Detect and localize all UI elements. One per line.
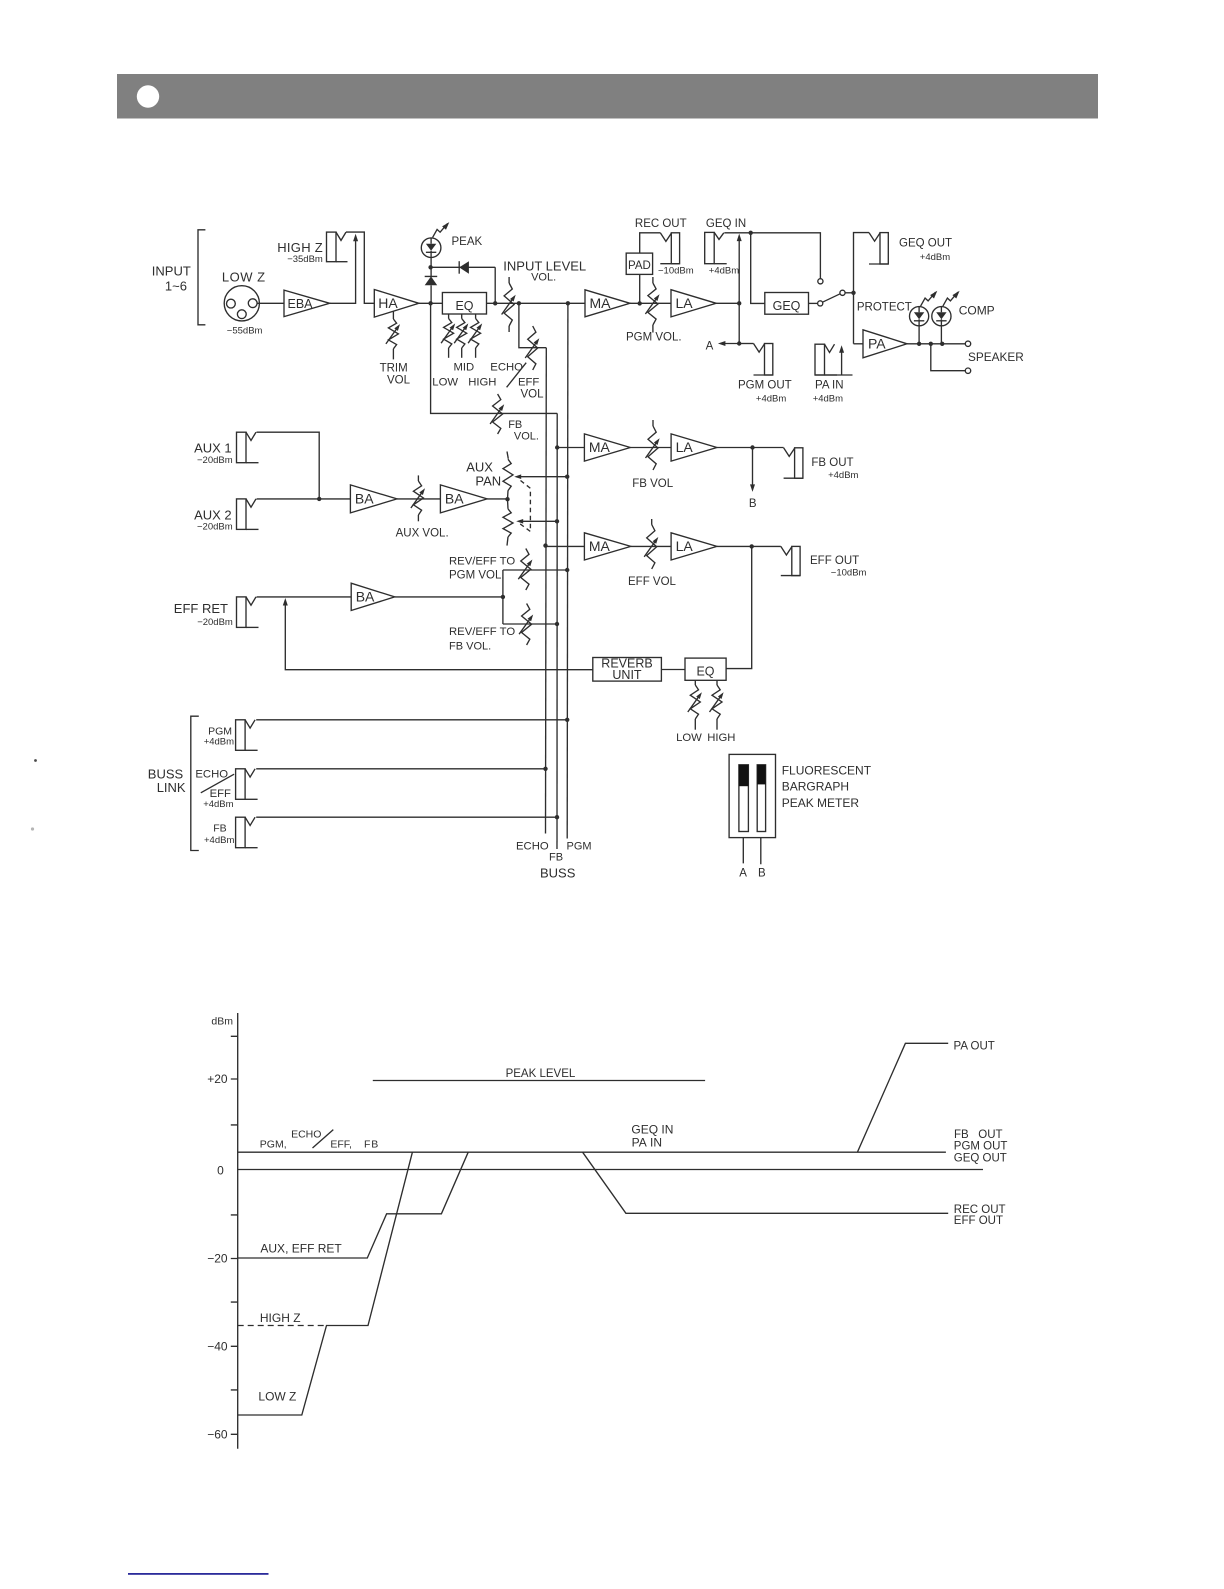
wire FB buss to FB MA: [555, 445, 584, 449]
wire ECHO link to ECHO buss: [256, 767, 548, 771]
svg-text:PEAK LEVEL: PEAK LEVEL: [506, 1068, 576, 1080]
svg-text:PGM OUT: PGM OUT: [954, 1140, 1008, 1152]
svg-text:AUX 1: AUX 1: [194, 441, 232, 456]
svg-text:ECHO: ECHO: [195, 769, 228, 781]
XLR connector LOW Z input: [224, 286, 259, 321]
wire FB link to FB buss: [256, 815, 559, 819]
label REC OUT: [635, 218, 694, 277]
label REV/EFF TO PGM VOL.: [449, 556, 515, 582]
speck: [31, 827, 34, 830]
svg-text:MA: MA: [589, 439, 611, 455]
chart axis ticks: [231, 1036, 238, 1434]
reverb EQ LOW pot: [688, 680, 702, 729]
buss labels: [516, 841, 592, 881]
PGM mix amp MA: [585, 290, 630, 317]
EQ box (reverb): [685, 658, 726, 680]
chart label LOW Z: [258, 1389, 296, 1403]
svg-text:+4dBm: +4dBm: [203, 799, 233, 810]
GEQ OUT jack: [869, 233, 888, 264]
svg-text:−20dBm: −20dBm: [197, 455, 233, 466]
svg-text:PA OUT: PA OUT: [954, 1041, 995, 1053]
PA IN jack: [815, 344, 837, 375]
AUX 2 jack: [237, 499, 259, 530]
label HIGH Z: [277, 240, 323, 265]
PA output line to SPEAKER: [907, 341, 971, 346]
wire BA to AUX PAN: [487, 497, 510, 501]
svg-text:FB OUT: FB OUT: [954, 1129, 1003, 1141]
wire FB LA out: [717, 445, 784, 449]
chart label HIGH Z: [260, 1311, 301, 1325]
wire switch to GEQ OUT and PA: [854, 233, 870, 344]
FB mix amp MA: [584, 434, 630, 461]
svg-text:INPUT: INPUT: [152, 264, 191, 279]
buffer amp EBA: [284, 290, 330, 317]
label ECHO/EFF VOL: [490, 361, 544, 400]
svg-text:PGM,: PGM,: [260, 1138, 287, 1150]
ECHO buss: [545, 348, 548, 834]
label PGM OUT: [738, 380, 792, 405]
label GEQ IN: [706, 218, 746, 277]
svg-text:B: B: [758, 868, 766, 880]
diode D1 (horizontal): [431, 261, 496, 303]
label EFF OUT: [810, 555, 867, 579]
labels LOW MID HIGH: [432, 362, 496, 389]
svg-text:AUX 2: AUX 2: [194, 508, 232, 523]
PA IN jack ground line: [815, 374, 853, 376]
svg-text:EQ: EQ: [455, 299, 473, 313]
svg-text:BUSS: BUSS: [540, 866, 576, 881]
channel FB VOL pot: [490, 394, 504, 434]
svg-text:BA: BA: [356, 589, 375, 605]
svg-text:VOL.: VOL.: [531, 272, 556, 284]
svg-text:0: 0: [217, 1163, 224, 1177]
speaker return branch: [931, 344, 971, 374]
svg-text:B: B: [749, 498, 757, 510]
svg-text:HIGH: HIGH: [468, 376, 496, 388]
svg-text:FB VOL.: FB VOL.: [449, 640, 491, 652]
wire LA out down to A / PGM OUT: [737, 303, 741, 345]
svg-text:PA IN: PA IN: [815, 380, 844, 392]
svg-text:PGM: PGM: [567, 841, 592, 853]
AUX 1 jack: [237, 432, 259, 463]
svg-text:EFF: EFF: [210, 788, 231, 800]
wire to PA amp: [854, 343, 864, 345]
svg-text:HIGH Z: HIGH Z: [277, 240, 323, 255]
svg-text:−60: −60: [207, 1428, 228, 1442]
svg-text:+4dBm: +4dBm: [756, 394, 786, 405]
svg-text:EFF OUT: EFF OUT: [954, 1215, 1003, 1227]
wire REV/EFF to PGM buss: [503, 568, 570, 572]
svg-text:REV/EFF TO: REV/EFF TO: [449, 626, 515, 638]
chart labels REC/EFF OUT: [954, 1204, 1006, 1227]
reverb EQ HIGH pot: [710, 680, 724, 729]
svg-text:FLUORESCENT: FLUORESCENT: [782, 764, 872, 778]
label INPUT 1~6: [152, 264, 191, 294]
wire EFF out down to EQ: [726, 546, 752, 668]
label PEAK: [452, 236, 483, 248]
AUX buffer BA: [350, 485, 397, 513]
svg-text:LINK: LINK: [157, 780, 186, 795]
svg-text:PROTECT: PROTECT: [857, 302, 912, 314]
wire to ECHO/EFF VOL: [519, 303, 546, 347]
HIGH Z input jack: [327, 232, 348, 262]
label REV/EFF TO FB VOL.: [449, 626, 515, 652]
node B arrow: [749, 448, 757, 511]
speck: [34, 759, 37, 762]
REV/EFF branch stem: [502, 570, 504, 624]
label PGM +4dBm: [204, 726, 234, 748]
REV/EFF TO PGM VOL pot: [518, 549, 532, 591]
EQ LOW pot: [441, 314, 455, 358]
svg-text:−10dBm: −10dBm: [658, 266, 694, 277]
labels LOW HIGH (reverb EQ): [676, 732, 735, 744]
EQ MID pot: [454, 314, 468, 358]
bargraph leads A B: [739, 838, 766, 880]
wire ECHO buss to EFF MA: [543, 543, 584, 547]
svg-text:PA: PA: [868, 335, 886, 351]
svg-text:PAD: PAD: [628, 260, 651, 272]
svg-text:EFF RET: EFF RET: [174, 601, 228, 616]
label BUSS LINK: [148, 767, 186, 796]
label AUX 2: [194, 508, 233, 533]
chart label GEQ IN / PA IN: [631, 1122, 673, 1149]
wire EFF MA to LA: [631, 545, 671, 547]
chart 0 dB gridline: [238, 1169, 983, 1171]
reverb return wire: [283, 598, 593, 670]
svg-text:VOL: VOL: [387, 374, 411, 386]
BUSS LINK bracket: [191, 716, 199, 850]
svg-text:EBA: EBA: [288, 297, 314, 311]
chart label AUX, EFF RET: [260, 1242, 342, 1256]
wire AUX2 to BA: [257, 497, 351, 501]
node A arrow: [706, 341, 740, 353]
svg-text:EFF OUT: EFF OUT: [810, 555, 859, 567]
svg-text:BA: BA: [445, 491, 464, 507]
AUX booster BA: [440, 485, 487, 513]
svg-text:−20dBm: −20dBm: [197, 617, 233, 628]
svg-text:LA: LA: [676, 295, 694, 311]
wire GEQ IN contact line: [724, 231, 820, 279]
svg-text:+20: +20: [207, 1072, 228, 1086]
svg-text:A: A: [739, 868, 747, 880]
svg-text:PAN: PAN: [475, 473, 501, 488]
wire AUX1 to AUX2 line: [257, 432, 320, 499]
GEQ bypass switch: [809, 279, 856, 306]
REC OUT jack: [660, 233, 679, 264]
svg-text:REV/EFF TO: REV/EFF TO: [449, 556, 515, 568]
AUX PAN wiper to PGM buss: [514, 474, 569, 479]
svg-text:LOW Z: LOW Z: [258, 1389, 296, 1403]
trace REC/EFF OUT: [583, 1152, 949, 1213]
svg-text:GEQ OUT: GEQ OUT: [954, 1153, 1007, 1165]
label INPUT LEVEL VOL.: [503, 259, 586, 284]
wire to PGM OUT jack: [739, 343, 753, 345]
svg-text:A: A: [706, 341, 714, 353]
trace AUX/EFF RET: [238, 1152, 469, 1258]
trim pot TRIM VOL: [386, 312, 400, 360]
svg-text:MA: MA: [590, 295, 612, 311]
ECHO/EFF VOL pot: [525, 326, 539, 370]
power amp PA: [863, 330, 907, 358]
head amp HA: [374, 290, 419, 318]
BUSS LINK PGM jack: [236, 720, 258, 751]
svg-text:GEQ IN: GEQ IN: [706, 218, 746, 230]
chart labels FB/PGM/GEQ OUT: [954, 1129, 1008, 1165]
BUSS LINK ECHO/EFF jack: [236, 769, 258, 800]
PAD box: [626, 233, 660, 304]
svg-text:GEQ: GEQ: [773, 299, 801, 313]
chart label PGM ECHO/EFF FB: [260, 1128, 379, 1150]
svg-text:PGM VOL.: PGM VOL.: [626, 332, 682, 344]
LED connections to PA out: [919, 326, 941, 344]
peak LED: [421, 222, 449, 257]
wire EQ to REVERB UNIT: [661, 669, 685, 671]
svg-text:MID: MID: [454, 362, 475, 374]
svg-text:COMP: COMP: [959, 304, 995, 318]
svg-text:+4dBm: +4dBm: [204, 835, 234, 846]
svg-text:GEQ IN: GEQ IN: [631, 1122, 673, 1136]
wire LA output junction: [716, 301, 741, 305]
svg-text:BA: BA: [355, 491, 374, 507]
svg-text:PA IN: PA IN: [632, 1136, 662, 1150]
PEAK LEVEL overline: [373, 1068, 705, 1081]
svg-text:LOW: LOW: [676, 732, 702, 744]
wire FB MA to LA: [630, 447, 671, 449]
wire LA out up to GEQ IN contact: [737, 234, 742, 304]
label ECHO/EFF +4dBm: [195, 769, 234, 811]
FB VOL pot: [646, 420, 660, 470]
REV/EFF TO FB VOL pot: [519, 604, 533, 646]
svg-text:PGM VOL.: PGM VOL.: [449, 570, 505, 582]
trace main input (LOW Z): [238, 1152, 413, 1415]
FB buss: [556, 413, 558, 849]
header bar: [117, 74, 1098, 119]
svg-text:−55dBm: −55dBm: [227, 326, 263, 337]
label PROTECT: [857, 302, 912, 314]
label AUX VOL.: [396, 528, 449, 540]
FB line amp LA: [671, 434, 717, 461]
wire PGM link to PGM buss: [256, 718, 569, 722]
svg-text:FB OUT: FB OUT: [811, 457, 853, 469]
EFF VOL pot: [644, 519, 658, 569]
svg-text:VOL: VOL: [521, 389, 545, 401]
trace HIGH Z (dashed): [238, 1325, 327, 1327]
wire EBA output up to HIGH Z jack contact: [330, 234, 358, 303]
wire EFF RET to BA: [257, 596, 352, 598]
wire down to GEQ box: [751, 233, 765, 304]
EQ HIGH pot: [468, 314, 482, 358]
svg-text:FB: FB: [364, 1138, 379, 1150]
svg-text:AUX, EFF RET: AUX, EFF RET: [260, 1242, 342, 1256]
svg-text:dBm: dBm: [211, 1016, 233, 1028]
label GEQ OUT: [899, 238, 952, 264]
svg-text:+4dBm: +4dBm: [920, 252, 950, 263]
REVERB UNIT box: [593, 657, 662, 683]
svg-text:GEQ OUT: GEQ OUT: [899, 238, 952, 250]
GEQ box: [765, 293, 809, 315]
input bracket: [198, 230, 205, 325]
PROTECT LED: [910, 291, 938, 326]
footer rule: [128, 1573, 269, 1575]
svg-text:ECHO: ECHO: [516, 841, 549, 853]
BUSS LINK FB jack: [236, 817, 258, 848]
svg-text:EFF VOL: EFF VOL: [628, 576, 677, 588]
AUX PAN pot upper half: [503, 452, 513, 500]
label FB VOL: [632, 478, 674, 490]
wire HIGH Z jack to HA input: [346, 232, 374, 303]
trace PA OUT: [857, 1043, 948, 1152]
svg-text:HA: HA: [378, 295, 398, 311]
PGM OUT jack: [754, 344, 773, 376]
label AUX PAN: [466, 460, 501, 489]
svg-text:PEAK: PEAK: [452, 236, 483, 248]
svg-text:−35dBm: −35dBm: [287, 254, 323, 265]
label AUX 1: [194, 441, 233, 467]
GEQ IN jack: [705, 232, 727, 263]
trace +4dBm main line: [238, 1151, 946, 1153]
label FB +4dBm: [204, 823, 234, 847]
label PGM VOL.: [626, 332, 682, 344]
svg-text:FB: FB: [213, 823, 226, 835]
EFF RET jack: [237, 597, 259, 628]
EFF line amp LA: [671, 533, 717, 560]
label -55dBm: [227, 326, 263, 337]
AUX VOL pot: [411, 475, 425, 521]
svg-text:+4dBm: +4dBm: [813, 394, 843, 405]
AUX PAN gang (dashed): [518, 481, 530, 532]
svg-text:+4dBm: +4dBm: [709, 266, 739, 277]
svg-text:TRIM: TRIM: [380, 363, 408, 375]
wire HA output to EQ: [419, 301, 443, 305]
svg-text:−20dBm: −20dBm: [197, 522, 233, 533]
svg-text:EFF,: EFF,: [330, 1138, 352, 1150]
label SPEAKER: [968, 350, 1024, 364]
PA IN normal contact arrow: [839, 345, 844, 375]
svg-text:EFF: EFF: [518, 376, 539, 388]
wire LED to diode junction: [428, 258, 432, 270]
PGM VOL pot: [645, 277, 659, 333]
svg-text:MA: MA: [589, 538, 611, 554]
fluorescent bargraph meter: [729, 754, 775, 837]
FB OUT jack: [784, 448, 803, 478]
COMP LED: [932, 291, 960, 326]
label FB VOL.: [508, 419, 539, 442]
svg-text:LA: LA: [676, 538, 694, 554]
INPUT LEVEL VOL pot: [502, 277, 516, 332]
label EFF VOL: [628, 576, 677, 588]
AUX PAN pot lower half: [503, 499, 513, 545]
svg-text:HIGH: HIGH: [707, 732, 735, 744]
svg-text:EQ: EQ: [696, 665, 714, 679]
chart Y axis: [237, 1013, 239, 1449]
PGM buss: [566, 303, 569, 838]
label TRIM VOL: [380, 363, 411, 387]
svg-text:LOW: LOW: [432, 376, 458, 388]
svg-text:PGM OUT: PGM OUT: [738, 380, 792, 392]
EFF OUT jack: [781, 546, 800, 575]
svg-text:FB: FB: [508, 419, 522, 431]
wire XLR to EBA: [257, 302, 284, 304]
svg-text:LA: LA: [676, 439, 694, 455]
svg-text:FB: FB: [549, 852, 563, 864]
label EFF RET: [174, 601, 233, 628]
wire REV/EFF to FB buss: [503, 622, 559, 626]
label FB OUT: [811, 457, 858, 481]
label COMP: [959, 304, 995, 318]
diode D2 (vertical): [425, 267, 438, 303]
wire to channel FB VOL: [431, 303, 558, 413]
wire BA to BA: [397, 498, 440, 500]
svg-text:FB VOL: FB VOL: [632, 478, 674, 490]
svg-text:−20: −20: [207, 1252, 228, 1266]
svg-text:UNIT: UNIT: [612, 668, 642, 682]
label LOW Z: [222, 269, 266, 284]
svg-text:+4dBm: +4dBm: [204, 737, 234, 748]
svg-text:HIGH Z: HIGH Z: [260, 1311, 301, 1325]
PGM line amp LA: [671, 290, 716, 317]
svg-text:LOW Z: LOW Z: [222, 269, 266, 284]
svg-text:ECHO: ECHO: [291, 1128, 321, 1140]
AUX PAN wiper to FB buss: [516, 519, 559, 524]
EFF return amp BA: [351, 583, 395, 610]
EFF mix amp MA: [584, 533, 630, 560]
svg-text:+4dBm: +4dBm: [828, 470, 858, 481]
svg-text:ECHO: ECHO: [490, 361, 523, 373]
chart axis labels: [207, 1016, 233, 1442]
label PA IN: [813, 380, 844, 405]
svg-text:BARGRAPH: BARGRAPH: [782, 780, 849, 794]
svg-text:1~6: 1~6: [165, 279, 187, 294]
svg-text:AUX VOL.: AUX VOL.: [396, 528, 449, 540]
EQ box (channel): [442, 293, 486, 315]
wire MA to LA with PAD tap: [630, 301, 671, 305]
wire EFF LA out: [717, 544, 781, 548]
chart label PA OUT: [954, 1041, 995, 1053]
label FLUORESCENT BARGRAPH PEAK METER: [782, 764, 872, 811]
svg-text:PEAK METER: PEAK METER: [782, 796, 860, 810]
svg-text:REC OUT: REC OUT: [635, 218, 687, 230]
svg-text:−10dBm: −10dBm: [831, 568, 867, 579]
wire EQ output to PGM MA: [487, 301, 586, 305]
svg-text:−40: −40: [207, 1340, 228, 1354]
wire BA out to REV/EFF pots: [395, 595, 505, 599]
svg-text:VOL.: VOL.: [514, 430, 539, 442]
svg-text:SPEAKER: SPEAKER: [968, 350, 1024, 364]
